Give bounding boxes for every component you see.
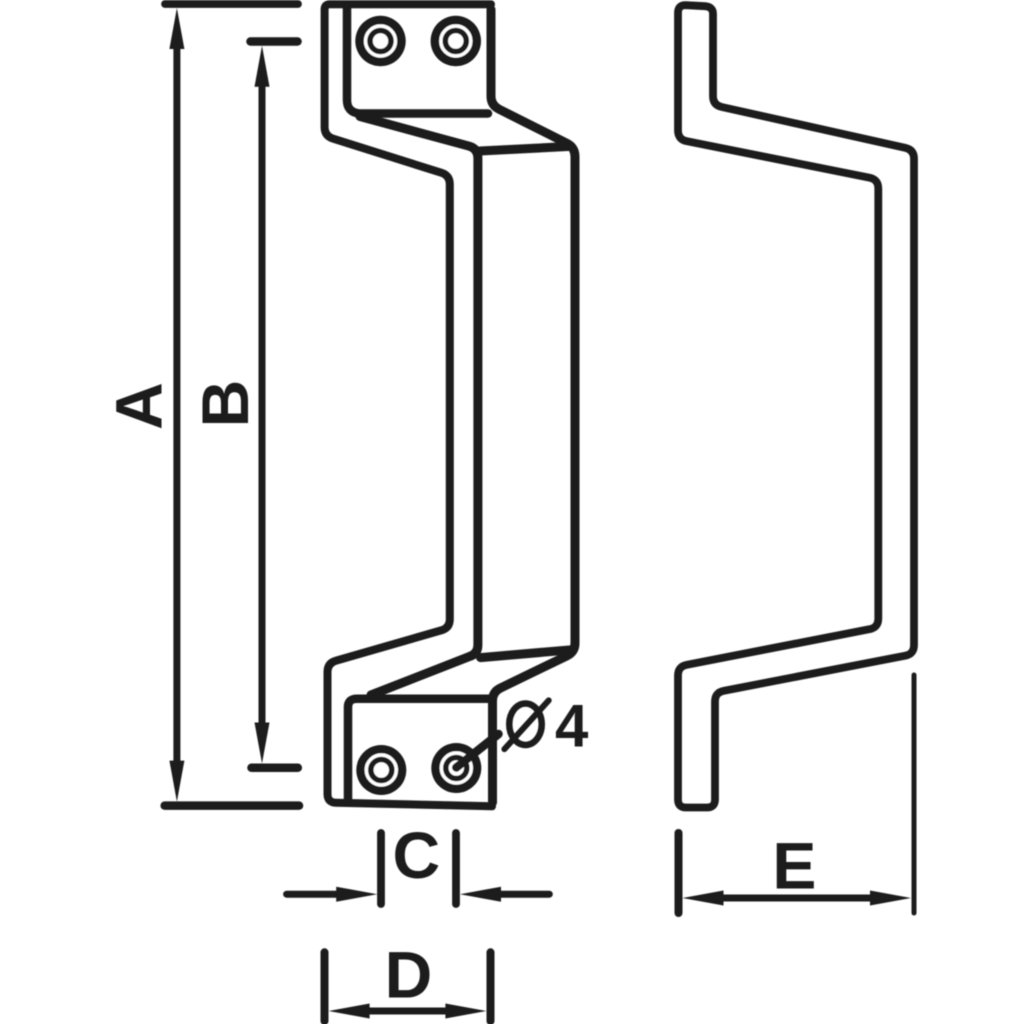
- arrowhead E right: [870, 891, 911, 906]
- front view: top plate fold line and plate bottom edge: [347, 8, 488, 114]
- screw hole bottom-right: [431, 743, 481, 793]
- dimension E right extension line: [912, 675, 917, 913]
- dimension B line: [259, 80, 266, 728]
- arrowhead A top: [169, 8, 184, 49]
- dimension A line: [173, 42, 180, 766]
- dimension A top extension bar: [165, 0, 298, 8]
- dimension C right arrow tail: [497, 891, 549, 898]
- dimension E left extension line: [675, 833, 683, 913]
- front view: bar top depth edge: [480, 146, 570, 151]
- label diameter symbol circle: [509, 703, 542, 745]
- dimension D right extension line: [487, 952, 495, 1021]
- front view: bar bottom depth edge: [481, 650, 572, 658]
- side view: Z-profile outline: [678, 5, 914, 807]
- svg-text:4: 4: [555, 693, 589, 760]
- arrowhead A bottom: [169, 761, 184, 802]
- dimension C left arrow tail: [287, 891, 340, 898]
- arrowhead D left: [329, 1004, 370, 1019]
- front view: top plate right edge, right diagonal, bar right edge, lower right diagonal, bottom plate right edge: [491, 10, 575, 803]
- svg-text:A: A: [101, 382, 175, 430]
- arrowhead B top: [255, 46, 270, 87]
- dimension E line: [716, 895, 877, 902]
- dimension C right extension line: [452, 833, 460, 904]
- front view: outer-left silhouette (top edge, left edge, neck diagonals, bar left edge, bottom edge): [325, 4, 492, 806]
- dimension C left extension line: [377, 833, 385, 904]
- screw hole bottom-left: [356, 745, 406, 795]
- front view: bottom plate fold line and plate top edge: [348, 699, 489, 802]
- arrowhead E left: [683, 891, 724, 906]
- svg-text:E: E: [772, 829, 816, 903]
- dimension D line: [362, 1008, 453, 1015]
- arrowhead D right: [445, 1004, 486, 1019]
- svg-text:C: C: [392, 818, 440, 892]
- arrowhead C right: [460, 887, 501, 902]
- dimension B bottom tick: [252, 764, 298, 773]
- screw hole top-left: [355, 16, 405, 66]
- leader line for hole diameter callout: [456, 734, 498, 768]
- dimension B top tick: [251, 37, 298, 46]
- front view: inner neck diagonal, bar front-left edge, lower inner diagonal: [360, 117, 478, 696]
- screw hole top-right: [431, 16, 481, 66]
- dimension D left extension line: [321, 952, 329, 1021]
- label diameter symbol slash: [504, 700, 548, 749]
- svg-text:D: D: [385, 938, 433, 1012]
- arrowhead B bottom: [255, 723, 270, 764]
- svg-text:B: B: [188, 380, 262, 428]
- dimension A bottom extension bar: [165, 801, 299, 810]
- arrowhead C left: [336, 887, 377, 902]
